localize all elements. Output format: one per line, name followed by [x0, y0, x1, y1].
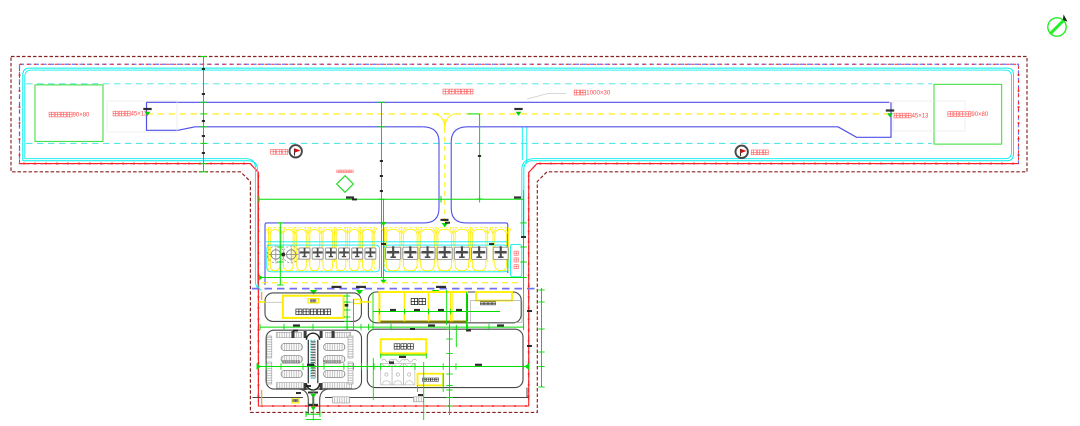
svg-text:0: 0 — [607, 90, 611, 97]
